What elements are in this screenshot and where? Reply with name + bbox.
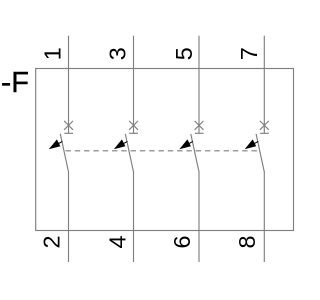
svg-text:4: 4 xyxy=(105,235,131,248)
pole 4 breaker X contact xyxy=(260,121,269,130)
pole 4 switch blade xyxy=(256,134,264,172)
svg-text:1: 1 xyxy=(40,47,66,60)
pole 1 bottom wire (terminal 2) xyxy=(68,171,70,262)
pole 1 top wire (terminal 1) xyxy=(68,36,70,134)
pole 4 top wire (terminal 7) xyxy=(263,36,265,134)
pole 2 breaker X contact xyxy=(129,121,138,130)
pole 3 bottom wire (terminal 6) xyxy=(198,171,200,262)
pole 4 bottom wire (terminal 8) xyxy=(263,171,265,262)
pole 4 actuator arrow xyxy=(245,139,259,149)
pole 1 fixed contact tick xyxy=(64,132,73,134)
pole 3 top wire (terminal 5) xyxy=(198,36,200,134)
pole 1 actuator arrow xyxy=(49,139,63,149)
pole 1 switch blade xyxy=(60,134,68,172)
pole 4 fixed contact tick xyxy=(260,132,269,134)
breaker body outline -F xyxy=(36,69,294,231)
pole 3 switch blade xyxy=(191,134,199,172)
svg-text:2: 2 xyxy=(39,235,65,248)
pole 3 actuator arrow xyxy=(179,139,193,149)
pole 2 switch blade xyxy=(125,134,133,172)
pole 1 breaker X contact xyxy=(64,121,73,130)
svg-text:5: 5 xyxy=(171,47,197,60)
pole 3 fixed contact tick xyxy=(195,132,204,134)
pole 2 fixed contact tick xyxy=(129,132,138,134)
pole 2 bottom wire (terminal 4) xyxy=(133,171,135,262)
device tag -F xyxy=(2,67,29,99)
pole 3 breaker X contact xyxy=(195,121,204,130)
svg-text:6: 6 xyxy=(169,235,195,248)
mechanical linkage dashed line xyxy=(66,150,259,152)
pole 2 actuator arrow xyxy=(114,139,128,149)
pole 2 top wire (terminal 3) xyxy=(133,36,135,134)
svg-text:3: 3 xyxy=(105,47,131,60)
svg-text:F: F xyxy=(11,67,29,99)
svg-text:8: 8 xyxy=(234,235,260,248)
svg-text:7: 7 xyxy=(236,47,262,60)
